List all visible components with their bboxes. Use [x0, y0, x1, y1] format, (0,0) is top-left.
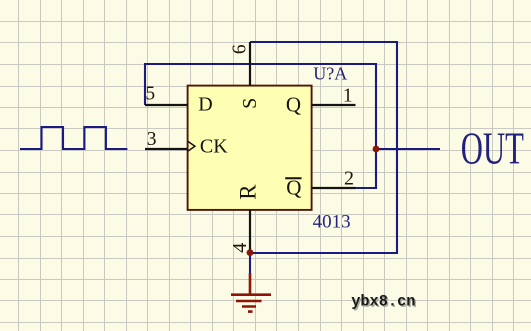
svg-text:5: 5: [145, 84, 155, 105]
svg-text:Q: Q: [286, 92, 301, 116]
svg-text:6: 6: [230, 44, 251, 54]
svg-text:4013: 4013: [313, 211, 351, 232]
svg-text:1: 1: [343, 85, 353, 106]
svg-text:U?A: U?A: [313, 64, 347, 84]
svg-text:3: 3: [147, 129, 157, 150]
svg-text:S: S: [239, 98, 261, 109]
svg-text:CK: CK: [200, 136, 228, 158]
svg-text:2: 2: [344, 167, 354, 189]
svg-text:OUT: OUT: [461, 124, 524, 174]
svg-text:D: D: [198, 94, 212, 116]
svg-text:ybx8.cn: ybx8.cn: [351, 293, 415, 311]
svg-text:4: 4: [229, 243, 251, 253]
svg-text:R: R: [236, 184, 261, 200]
